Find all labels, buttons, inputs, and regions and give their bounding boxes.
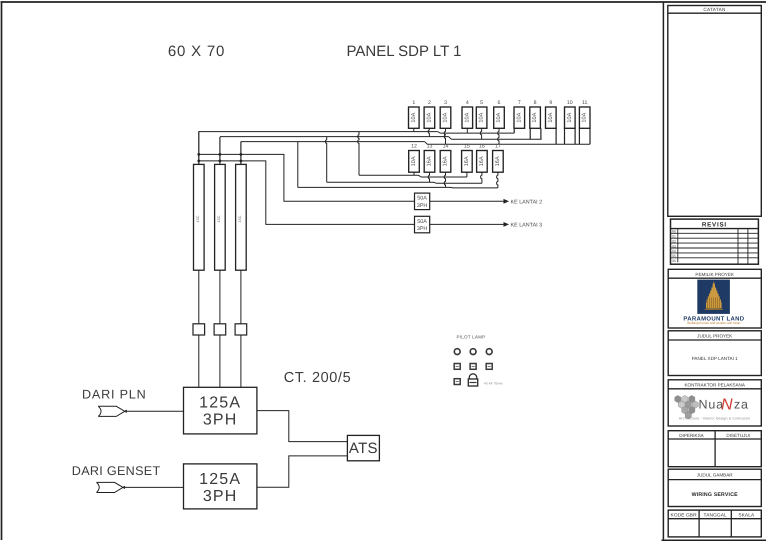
svg-text:11: 11 bbox=[582, 100, 587, 106]
svg-text:WIRING SERVICE: WIRING SERVICE bbox=[692, 492, 739, 498]
svg-text:KE LANTAI 2: KE LANTAI 2 bbox=[511, 199, 543, 205]
svg-text:17: 17 bbox=[495, 143, 501, 149]
svg-text:1: 1 bbox=[412, 100, 415, 106]
svg-text:15: 15 bbox=[464, 143, 470, 149]
svg-text:3PH: 3PH bbox=[417, 226, 428, 232]
svg-text:10A: 10A bbox=[411, 112, 417, 122]
svg-text:10A: 10A bbox=[548, 112, 554, 122]
svg-text:10: 10 bbox=[567, 100, 573, 106]
svg-text:2: 2 bbox=[428, 100, 431, 106]
svg-text:9: 9 bbox=[549, 100, 552, 106]
svg-text:DIPERIKSA: DIPERIKSA bbox=[679, 433, 704, 438]
svg-text:1SC: 1SC bbox=[238, 215, 242, 222]
svg-text:KONTRAKTOR PELAKSANA: KONTRAKTOR PELAKSANA bbox=[684, 382, 745, 387]
svg-text:06: 06 bbox=[672, 259, 676, 263]
svg-text:Architecture - Interior Design: Architecture - Interior Design & Contrac… bbox=[679, 417, 751, 421]
svg-text:JUDUL PROYEK: JUDUL PROYEK bbox=[697, 334, 733, 339]
svg-text:16: 16 bbox=[479, 143, 485, 149]
svg-text:8: 8 bbox=[534, 100, 537, 106]
svg-text:CT. 200/5: CT. 200/5 bbox=[284, 370, 351, 386]
svg-text:DARI GENSET: DARI GENSET bbox=[72, 464, 161, 478]
svg-text:1SC: 1SC bbox=[196, 215, 200, 222]
svg-text:6: 6 bbox=[498, 100, 501, 106]
svg-text:05: 05 bbox=[672, 254, 676, 258]
svg-text:4X 4X 70mm: 4X 4X 70mm bbox=[484, 382, 503, 386]
svg-text:KODE GBR: KODE GBR bbox=[671, 512, 698, 518]
svg-text:12: 12 bbox=[411, 143, 417, 149]
svg-text:KE LANTAI 3: KE LANTAI 3 bbox=[511, 223, 543, 229]
svg-text:16A: 16A bbox=[495, 156, 501, 166]
svg-text:10A: 10A bbox=[567, 112, 573, 122]
svg-text:DARI PLN: DARI PLN bbox=[82, 388, 147, 402]
svg-text:N0: N0 bbox=[672, 230, 676, 234]
svg-text:4: 4 bbox=[466, 100, 469, 106]
svg-text:10A: 10A bbox=[464, 112, 470, 122]
svg-text:SKALA: SKALA bbox=[738, 512, 755, 518]
svg-text:16A: 16A bbox=[427, 156, 433, 166]
svg-text:50A: 50A bbox=[417, 219, 427, 225]
svg-text:1SC: 1SC bbox=[217, 215, 221, 222]
svg-text:03: 03 bbox=[672, 244, 676, 248]
svg-text:3PH: 3PH bbox=[417, 203, 428, 209]
svg-text:50A: 50A bbox=[417, 196, 427, 202]
svg-text:01: 01 bbox=[672, 235, 676, 239]
svg-text:TANGGAL: TANGGAL bbox=[704, 512, 727, 518]
svg-text:125A: 125A bbox=[199, 471, 241, 488]
svg-text:PANEL SDP LT 1: PANEL SDP LT 1 bbox=[346, 43, 461, 60]
svg-text:PILOT LAMP: PILOT LAMP bbox=[457, 334, 486, 339]
svg-text:10A: 10A bbox=[516, 112, 522, 122]
svg-text:PEMILIK PROYEK: PEMILIK PROYEK bbox=[695, 272, 734, 277]
svg-text:Building homes and people with: Building homes and people with heart bbox=[687, 321, 740, 325]
svg-text:5: 5 bbox=[480, 100, 483, 106]
svg-text:02: 02 bbox=[672, 239, 676, 243]
svg-text:10A: 10A bbox=[426, 112, 432, 122]
svg-text:16A: 16A bbox=[464, 156, 470, 166]
svg-text:04: 04 bbox=[672, 249, 676, 253]
svg-text:10A: 10A bbox=[496, 112, 502, 122]
svg-text:7: 7 bbox=[518, 100, 521, 106]
svg-text:PANEL SDP LANTAI 1: PANEL SDP LANTAI 1 bbox=[692, 356, 738, 361]
svg-text:10A: 10A bbox=[411, 156, 417, 166]
svg-text:N: N bbox=[721, 397, 733, 414]
svg-text:3: 3 bbox=[444, 100, 447, 106]
svg-text:DISETUJUI: DISETUJUI bbox=[726, 433, 750, 438]
svg-text:10A: 10A bbox=[443, 112, 449, 122]
svg-text:16A: 16A bbox=[479, 156, 485, 166]
svg-text:JUDUL GAMBAR: JUDUL GAMBAR bbox=[697, 472, 734, 477]
svg-text:3PH: 3PH bbox=[203, 412, 238, 429]
svg-text:125A: 125A bbox=[199, 395, 241, 412]
svg-text:REVISI: REVISI bbox=[702, 222, 727, 229]
svg-text:60 X 70: 60 X 70 bbox=[168, 43, 225, 60]
svg-text:3PH: 3PH bbox=[203, 488, 238, 505]
svg-text:CATATAN: CATATAN bbox=[703, 7, 725, 12]
svg-text:za: za bbox=[734, 398, 749, 412]
svg-text:ATS: ATS bbox=[349, 440, 378, 457]
svg-text:10A: 10A bbox=[479, 112, 485, 122]
svg-text:10A: 10A bbox=[582, 112, 588, 122]
svg-text:13: 13 bbox=[427, 143, 433, 149]
svg-text:16A: 16A bbox=[443, 156, 449, 166]
svg-text:10A: 10A bbox=[532, 112, 538, 122]
